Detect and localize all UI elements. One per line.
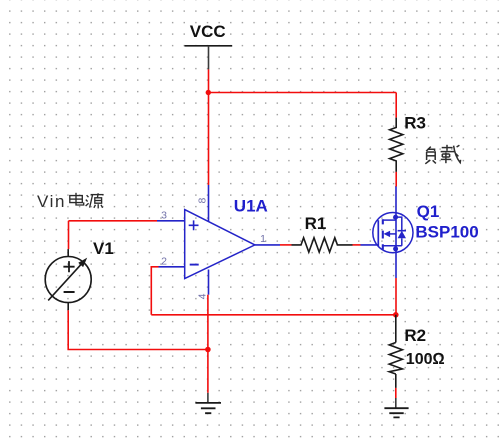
transistor Q1 body diode cathode bar <box>398 230 406 232</box>
wire R1 to Q1 gate <box>353 244 361 246</box>
op-amp pin 3 lead <box>157 220 185 222</box>
wire op-amp supply vertical (red) <box>208 93 210 186</box>
resistor R3 body <box>390 118 403 172</box>
wire R3 bottom lead red <box>395 172 397 187</box>
svg-text:2: 2 <box>161 255 167 267</box>
transistor Q1 gate lead <box>361 244 379 246</box>
op-amp pin 1 output lead <box>255 244 280 246</box>
svg-text:U1A: U1A <box>234 197 268 216</box>
transistor Q1 gate bar <box>377 220 379 246</box>
op-amp U1A triangle body <box>185 210 255 279</box>
wire V1 top (red) <box>68 221 70 249</box>
op-amp pin 2 lead <box>159 266 185 268</box>
svg-text:4: 4 <box>196 293 208 299</box>
load text 负载 (drawn strokes) <box>425 145 460 164</box>
transistor Q1 source junction dot <box>393 246 398 251</box>
node junction source/R2/feedback <box>393 312 399 318</box>
transistor Q1 body connection with arrow <box>389 233 396 235</box>
transistor Q1 body diode triangle <box>398 231 406 239</box>
op-amp minus input marking <box>190 264 199 266</box>
transistor Q1 internal drain-source vertical <box>395 217 397 249</box>
ground symbol middle <box>195 403 221 413</box>
svg-text:Q1: Q1 <box>417 202 440 221</box>
transistor Q1 circle <box>373 213 413 253</box>
wire feedback pin2 corner <box>151 267 158 315</box>
wire V1 bottom (red) <box>68 310 208 349</box>
wire R2 to ground (red) <box>395 388 397 398</box>
node junction at ground net <box>205 347 211 353</box>
transistor Q1 body arrow head <box>384 231 391 237</box>
transistor Q1 body diode bottom link <box>401 238 403 246</box>
svg-text:R1: R1 <box>305 214 327 233</box>
V1 minus marking <box>64 291 75 293</box>
transistor Q1 source connection <box>383 245 402 247</box>
transistor Q1 channel bar segments <box>382 219 384 249</box>
svg-text:BSP100: BSP100 <box>415 223 478 242</box>
V1 plus marking <box>63 261 74 272</box>
V1 top lead black <box>67 249 69 256</box>
wire VCC stub (black) <box>208 46 210 70</box>
wire op-amp pin4 to ground (red) <box>207 295 209 393</box>
wire Q1 source to node (red) <box>395 278 397 315</box>
resistor R2 body <box>389 343 402 375</box>
wire VCC stub (red) <box>208 69 210 92</box>
op-amp U1A pin 8 lead <box>208 185 210 222</box>
wire top rail horizontal <box>208 92 396 94</box>
resistor R2 top lead <box>395 315 397 343</box>
transistor Q1 source lead <box>395 249 397 278</box>
svg-text:Vin: Vin <box>37 192 66 211</box>
op-amp U1A pin 4 lead <box>208 270 210 295</box>
V1 arrow <box>48 262 83 300</box>
svg-text:V1: V1 <box>93 239 114 258</box>
V1 bottom lead black <box>67 303 69 311</box>
wire R3 top lead red <box>395 93 397 118</box>
transistor Q1 drain connection <box>383 219 396 221</box>
node junction at VCC rail <box>206 90 211 95</box>
transistor Q1 body diode top link <box>396 217 402 231</box>
resistor R1 body <box>292 238 353 252</box>
ground stub right <box>395 398 397 408</box>
V1 arrow head <box>78 258 87 268</box>
svg-text:R3: R3 <box>404 114 426 133</box>
wire Vin to pin 3 <box>69 220 158 222</box>
source V1 circle <box>45 257 91 303</box>
wire feedback horizontal to source node <box>151 314 395 316</box>
svg-text:R2: R2 <box>404 326 426 345</box>
transistor Q1 drain lead <box>395 186 397 217</box>
svg-text:1: 1 <box>260 233 266 245</box>
transistor Q1 drain junction dot <box>393 215 398 220</box>
power symbol VCC bar <box>185 45 233 47</box>
op-amp plus input marking <box>189 220 199 230</box>
svg-text:VCC: VCC <box>190 22 226 41</box>
resistor R2 bottom lead black <box>395 374 397 388</box>
svg-text:8: 8 <box>197 198 209 204</box>
ground symbol right <box>384 408 408 417</box>
ground stub middle <box>207 393 209 403</box>
svg-text:3: 3 <box>161 209 167 221</box>
svg-text:100Ω: 100Ω <box>406 351 445 368</box>
wire pin1 to R1 <box>280 244 292 246</box>
